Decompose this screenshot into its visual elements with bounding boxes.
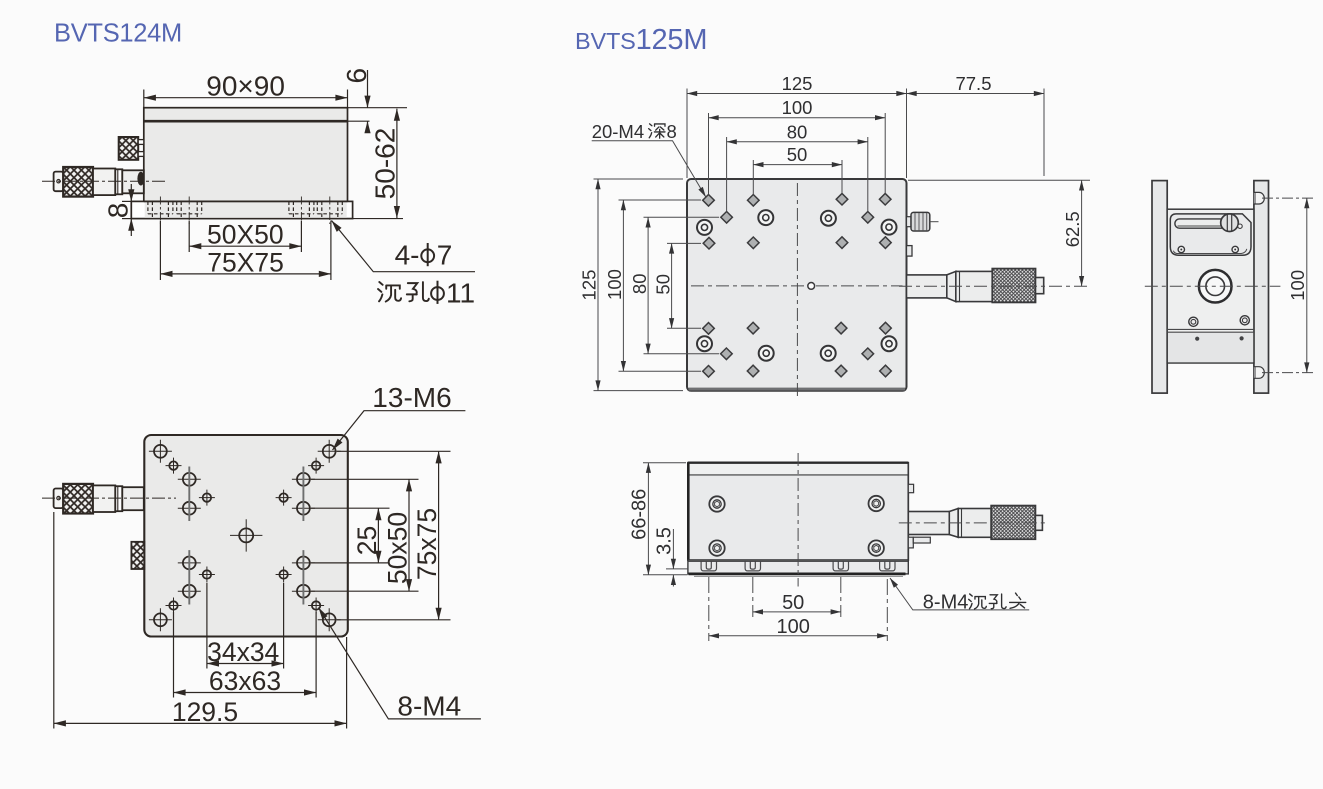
dimension 63x63 [174,666,317,696]
svg-text:34x34: 34x34 [207,637,279,667]
svg-text:62.5: 62.5 [1062,211,1083,247]
flange counterbore notches [1254,192,1264,204]
svg-text:80: 80 [787,121,808,142]
svg-text:BVTS124M: BVTS124M [54,20,182,48]
two small screws [1178,246,1238,252]
dimension 25 (vertical) [352,508,382,563]
dimension 50 (left) [652,243,673,328]
bottom extension lines [709,577,888,641]
center bore [1199,270,1232,303]
svg-text:20-M4: 20-M4 [592,121,644,142]
svg-text:BVTS125M: BVTS125M [575,24,707,56]
svg-text:4-: 4- [395,240,420,271]
dimension 100 (side view) [1262,198,1313,373]
slotted screw [1221,214,1239,232]
svg-text:13-M6: 13-M6 [372,382,451,413]
vertical centerline [797,453,799,587]
svg-text:129.5: 129.5 [172,697,238,727]
svg-text:125: 125 [579,270,600,301]
svg-text:63x63: 63x63 [209,666,281,696]
top dim extension lines [687,89,1044,212]
left dim extension lines [594,179,720,391]
knurled thimble [63,167,93,197]
corner M6 holes [149,440,341,632]
svg-text:90×90: 90×90 [206,70,285,101]
plate centerlines [691,183,903,396]
left edge thick [687,463,690,560]
counterbore circle holes [697,210,897,361]
svg-text:100: 100 [604,269,625,300]
side lock knob [131,542,144,569]
top mechanism plate [1170,214,1251,255]
top adjustment knob [119,137,144,160]
svg-text:3.5: 3.5 [653,527,675,555]
svg-text:100: 100 [777,616,810,638]
center pin hole [808,283,815,290]
svg-text:80: 80 [629,274,650,295]
micrometer head (front view) [899,484,1048,548]
sleeve [93,169,115,196]
dimension 50x50 (vertical) [382,479,412,591]
dimension 100 (bottom) [709,616,888,638]
svg-text:125: 125 [782,73,813,94]
svg-text:50: 50 [782,592,804,614]
dimension 129.5 [54,697,347,727]
svg-text:25: 25 [352,526,382,555]
micrometer head (right, top view) [899,269,1089,303]
leader 8-M4 [319,608,481,722]
four socket head screws [709,496,884,556]
body [688,463,908,560]
center hole [230,519,262,551]
pair hole axis lines [189,467,303,605]
leader 8-M4 counterbore head [890,578,1029,613]
svg-text:50X50: 50X50 [207,220,284,250]
middle body [1167,209,1254,363]
dimension 90x90 [144,70,348,107]
micrometer head (top view) [42,484,176,514]
dimension 62.5 (right) [908,180,1090,286]
dimension 34x34 [207,637,284,667]
svg-text:8: 8 [103,203,134,219]
text chenkong phi11 [378,282,401,302]
svg-text:8-M4: 8-M4 [923,591,969,613]
micrometer head (side view) [42,167,167,197]
top plate thick line [144,120,348,123]
horizontal centerline [1145,285,1281,287]
stage plate (top view) [144,435,347,637]
two socket screws [1189,316,1250,327]
dimension 66-86 [629,463,688,575]
dimension 75X75 [160,221,331,281]
svg-text:8-M4: 8-M4 [397,690,461,721]
svg-text:100: 100 [782,97,813,118]
bottom base plate [131,201,352,218]
stage plate (top view) [687,179,907,391]
spindle nut dark [137,172,144,186]
base plate [688,560,908,574]
svg-text:7: 7 [437,240,453,271]
counterbore holes dashed (4-phi7) [148,201,342,218]
dimension 6 [341,68,372,128]
adjustment slot [1175,219,1229,228]
body division lines [1167,329,1254,332]
dimension 100 (top) [709,97,886,118]
stage body (side view) [131,108,407,219]
dimension 80 (top) [727,121,868,142]
ring [115,169,122,194]
dimension 125 (top) [687,73,907,94]
M4 diamond holes (20-M4) [703,193,892,377]
dimension 80 (left) [629,217,650,353]
dimension 8 [103,184,134,236]
svg-text:50-62: 50-62 [370,128,401,200]
lower body shading [1168,332,1253,362]
svg-text:75X75: 75X75 [207,247,284,277]
bottom extension lines [54,512,347,729]
right side extension lines [311,451,451,620]
dimension 75x75 (vertical) [412,451,442,620]
counterbore notches (8-M4) [701,561,895,571]
svg-text:100: 100 [1287,270,1308,301]
two dark pins [1195,337,1199,341]
leader 20-M4 deep8 [592,121,706,197]
dimension 50X50 [189,220,301,252]
svg-text:75x75: 75x75 [412,508,442,580]
leader 13-M6 [333,382,466,450]
svg-text:8: 8 [667,121,677,142]
right flange plate [1254,181,1269,394]
dimension 50 (top) [753,144,842,165]
side small tab [907,246,913,257]
dimension 100 (left) [604,200,625,371]
svg-text:50: 50 [652,274,673,295]
dimension 50-62 [370,109,401,218]
dimension 77.5 (top) [907,73,1045,94]
dimension 3.5 [653,527,688,586]
inner M6 pairs [178,473,315,598]
svg-text:6: 6 [341,68,372,84]
top edge extension to right [348,107,408,109]
top right knob [907,212,940,231]
svg-text:11: 11 [446,277,475,308]
counterbore hole centerlines [160,197,329,225]
svg-text:50x50: 50x50 [382,512,412,584]
dimension 125 (left) [579,179,600,391]
svg-text:66-86: 66-86 [629,489,651,540]
svg-text:50: 50 [787,144,808,165]
bottom edge shadow [689,388,906,391]
left flange plate [1152,181,1167,394]
end cap [54,172,64,192]
leader 4-phi7 counterbore callout [332,221,476,309]
spindle [122,170,144,193]
svg-text:77.5: 77.5 [955,73,991,94]
mid M4 holes [199,490,292,583]
dimension 50 (bottom) [753,592,841,614]
near-corner M4 holes [166,458,325,614]
top strip line [689,464,908,475]
